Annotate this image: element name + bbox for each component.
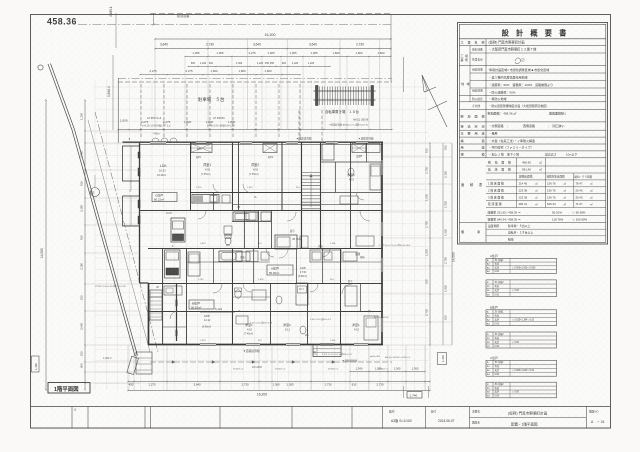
title strip project cell: [585, 407, 587, 429]
interior wall vertical bed2 right: [281, 142, 283, 210]
bottom dim chain: [128, 381, 430, 383]
fixture bottom left kitchen: [165, 250, 181, 278]
left dim chain: [84, 100, 86, 390]
door arc entry: [360, 211, 370, 221]
vertical wall lower bed divider: [270, 283, 272, 345]
window marks right wall: [381, 160, 383, 175]
right chain extension lines: [383, 142, 452, 144]
entry porch bottom left: [136, 352, 152, 374]
stair right wall: [320, 142, 322, 248]
road centerline top: [150, 13, 392, 15]
unit B bath cluster: [219, 251, 242, 262]
top chain extension lines: [154, 39, 156, 129]
parking approach dashed verticals: [298, 110, 300, 142]
boxed rotated dim 1360: [438, 353, 447, 365]
dim chain row3: [188, 65, 330, 67]
interior wall vertical bed1-hall: [232, 142, 234, 210]
closet WIC upper left: [191, 144, 212, 153]
vertical wall lower left: [162, 248, 164, 345]
wall B unit vertical: [176, 284, 178, 342]
door arc lower1: [213, 284, 222, 293]
unit B wc: [235, 290, 241, 298]
entry door upper right: [366, 144, 380, 153]
left overall dim 14560: [45, 100, 47, 390]
kitchen counter strip lower: [171, 218, 185, 242]
north-south boundary line right: [390, 14, 392, 82]
plan title box 1F: [48, 383, 90, 394]
north arrow: [422, 75, 447, 127]
door arc mid: [287, 212, 296, 221]
dim chain row1: [155, 48, 391, 50]
unit label B boxed: [189, 300, 214, 309]
title strip date cell: [469, 407, 471, 429]
west site line: [118, 78, 120, 143]
closet upper mid: [263, 144, 277, 153]
overall dim 16200 top: [155, 38, 391, 40]
extra door arcs: [198, 211, 206, 219]
area table grid: [486, 165, 606, 167]
handwritten note: [515, 58, 521, 64]
summary table row lines: [459, 45, 606, 47]
right dim chain outer: [442, 143, 444, 345]
parking stall dashed dividers: [140, 84, 142, 139]
washroom A lower: [310, 250, 341, 262]
entry wall vertical: [350, 142, 352, 248]
boxed dim 1740: [403, 386, 405, 398]
vertical wall lower bed divider2: [307, 283, 309, 345]
right dim chain inner: [429, 143, 431, 345]
boxed rotated dim 1390: [32, 356, 40, 372]
unit label A boxed: [267, 265, 293, 275]
diagonal end marker: [127, 356, 139, 374]
boundary dashdot from 458.36: [78, 24, 391, 26]
window marks bottom wall: [200, 344, 216, 346]
building exterior wall right: [381, 143, 383, 345]
dim chain row4: [140, 74, 300, 76]
site boundary diagonal double line: [48, 64, 135, 356]
title strip top line: [31, 406, 611, 408]
bay window west upper: [123, 146, 140, 181]
upper unit partitions: [213, 193, 215, 211]
building exterior wall top: [123, 141, 384, 143]
vertical wall lower right unit: [340, 248, 342, 345]
bench mark circle: [38, 65, 43, 70]
bottom chain extension lines: [127, 345, 129, 391]
summary table inner border: [459, 24, 606, 242]
vent arcs above top wall: [152, 138, 159, 142]
bathroom unit A lower: [275, 235, 297, 249]
survey circle with label: [91, 188, 100, 197]
closet upper right: [352, 144, 366, 153]
door arc bed1: [213, 184, 222, 193]
door arc bed2: [243, 184, 252, 193]
bottom sub dim chain right: [350, 371, 425, 373]
bay window west lower: [123, 196, 140, 226]
closet hatch diagonals: [191, 144, 212, 153]
fixture bottom stair: [150, 290, 162, 320]
interior wall lower corridor: [148, 283, 383, 285]
interior wall bottom rooms: [148, 311, 383, 313]
wc upper: [225, 237, 231, 245]
summary table label column lines: [469, 46, 471, 66]
interior wall mid: [148, 248, 383, 250]
stair left wall: [301, 142, 303, 248]
title strip dividers left: [71, 407, 73, 429]
unit B arcs: [279, 249, 288, 258]
secondary diagonal: [88, 120, 150, 352]
vertical wall lower mid: [232, 248, 234, 345]
summary table outer border: [458, 23, 608, 245]
right overall dim 14560: [451, 143, 453, 345]
road boundary dashed lower: [150, 361, 392, 363]
building exterior wall left: [139, 143, 141, 284]
interior wall vertical LDK: [190, 142, 192, 210]
extra fixtures lower: [188, 252, 200, 276]
kitchen A lower: [296, 283, 308, 305]
window marks top wall: [150, 142, 166, 144]
bicycle parking hatched: [317, 87, 372, 106]
interior wall vertical bed2 left: [238, 142, 240, 210]
left chain extension lines: [85, 130, 140, 132]
stairs arrow: [310, 174, 312, 207]
washer box: [300, 236, 308, 248]
vertical wall lower kitchen: [186, 248, 188, 345]
upper dim extension line: [403, 57, 405, 92]
wc lower: [300, 326, 306, 334]
site north boundary dashed: [118, 81, 392, 83]
module grid lines: [95, 80, 428, 390]
arrow marks on boundary: [172, 361, 175, 364]
title strip scale cell: [424, 407, 426, 429]
setback diagonal dash-dot: [95, 112, 158, 352]
bathroom tub upper: [233, 212, 258, 221]
door arc lower2: [342, 284, 352, 294]
dim chain row2: [185, 55, 391, 57]
interior wall rooms upper bottom: [190, 192, 302, 194]
lower unit partitions: [213, 249, 215, 284]
stairs treads: [302, 172, 320, 174]
kitchen counter C unit: [192, 195, 219, 204]
bottom overall dim 16200: [128, 390, 430, 392]
dim chain above wall: [118, 129, 392, 131]
building exterior wall bottom: [148, 344, 383, 346]
bikou content: [486, 228, 606, 230]
washstand upper: [261, 212, 271, 221]
extra fixtures upper: [224, 226, 232, 234]
interior wall corridor upper: [140, 210, 383, 212]
unit label C boxed: [152, 193, 177, 202]
entry porch bottom center: [313, 345, 341, 357]
